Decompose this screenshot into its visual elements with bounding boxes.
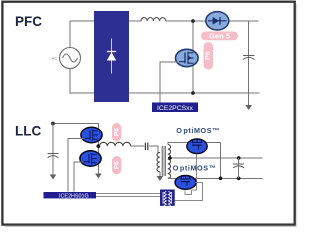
node output cap bottom (237, 177, 241, 181)
sync-rect MOSFET SR1 (OptiMOS) (187, 139, 207, 154)
node half-bridge midpoint (97, 144, 101, 148)
gate wire Q2 (68, 138, 84, 191)
gate wire Q1 to ICE2PCSxx (160, 62, 178, 103)
HB high-side MOSFET Q2 (81, 127, 102, 142)
wire SR1 to output rail (220, 143, 222, 179)
svg-text:OptiMOS™: OptiMOS™ (176, 126, 220, 135)
ground LLC input (50, 175, 57, 180)
svg-text:PFC: PFC (15, 14, 42, 29)
resonant inductor Lr (100, 142, 131, 146)
wire Lr to Cr (131, 145, 145, 147)
HB low-side MOSFET Q3 (80, 151, 101, 166)
ground transformer primary (157, 176, 164, 181)
node output cap top (237, 156, 241, 160)
ground half-bridge (95, 174, 102, 179)
LLC controller ICE2HS01G (44, 192, 97, 199)
svg-text:P6: P6 (113, 128, 120, 136)
boost MOSFET Q1 (176, 49, 199, 66)
label P6 (HB low) (112, 156, 121, 174)
LLC input capacitor C2 (48, 124, 59, 176)
node SR1 source (219, 177, 223, 181)
svg-text:ICE2HS01G: ICE2HS01G (59, 193, 89, 199)
wire AC top (70, 21, 94, 48)
svg-text:AC: AC (51, 56, 57, 61)
gate wire SR2 hook (185, 190, 191, 194)
wire bridge to boost inductor (129, 20, 141, 22)
boost diode D1 (206, 12, 229, 30)
wire controller to gate-drive transformer (upper) (96, 193, 160, 195)
svg-text:Gen 5: Gen 5 (209, 32, 231, 41)
svg-text:P6: P6 (113, 161, 120, 169)
transformer T1 core (162, 146, 166, 176)
svg-text:ICE2PCSxx: ICE2PCSxx (157, 105, 193, 112)
svg-text:OptiMOS™: OptiMOS™ (173, 164, 217, 173)
wire Cr to transformer primary (149, 146, 160, 152)
transformer T1 secondary winding (168, 144, 171, 178)
boost inductor L1 (141, 18, 166, 21)
resonant capacitor Cr (145, 143, 147, 150)
svg-text:P6: P6 (203, 51, 212, 60)
center tap rail (170, 157, 263, 159)
transformer T1 primary winding (157, 152, 160, 171)
sync-rect MOSFET SR2 (OptiMOS) (175, 176, 196, 190)
wire AC bottom (70, 69, 94, 94)
bottom rail PFC (129, 92, 260, 94)
ground PFC (245, 105, 252, 110)
output capacitor Co (233, 158, 244, 178)
gate wire SR1 (191, 154, 196, 190)
node boost switch bottom (191, 91, 195, 95)
bottom output rail (168, 177, 263, 179)
gate wire Q3 (74, 162, 83, 192)
boost MOSFET drain-source wire (192, 21, 194, 93)
label P6 (PFC) (203, 42, 213, 70)
label P6 (HB high) (112, 123, 121, 141)
bulk capacitor C1 (243, 21, 255, 106)
node LLC bus (51, 122, 55, 126)
bridge rectifier BR1 (94, 11, 129, 102)
label Gen 5 (201, 32, 238, 41)
PFC controller ICE2PCSxx (152, 103, 198, 113)
node boost switch top (191, 19, 195, 23)
AC source V1 (51, 48, 80, 69)
wire diode to output (228, 20, 259, 22)
wire primary to ground (159, 172, 161, 177)
svg-text:LLC: LLC (15, 124, 41, 139)
LLC bus rail (53, 124, 98, 130)
wire inductor to boost diode (166, 20, 206, 22)
half-bridge vertical wire (97, 124, 99, 175)
wire secondary top to SR1 (168, 143, 221, 145)
wire SR2 drain stub (175, 183, 203, 201)
gate-drive transformer box (160, 190, 175, 206)
node center tap (168, 156, 172, 160)
wire controller to gate-drive transformer (lower) (96, 196, 160, 198)
